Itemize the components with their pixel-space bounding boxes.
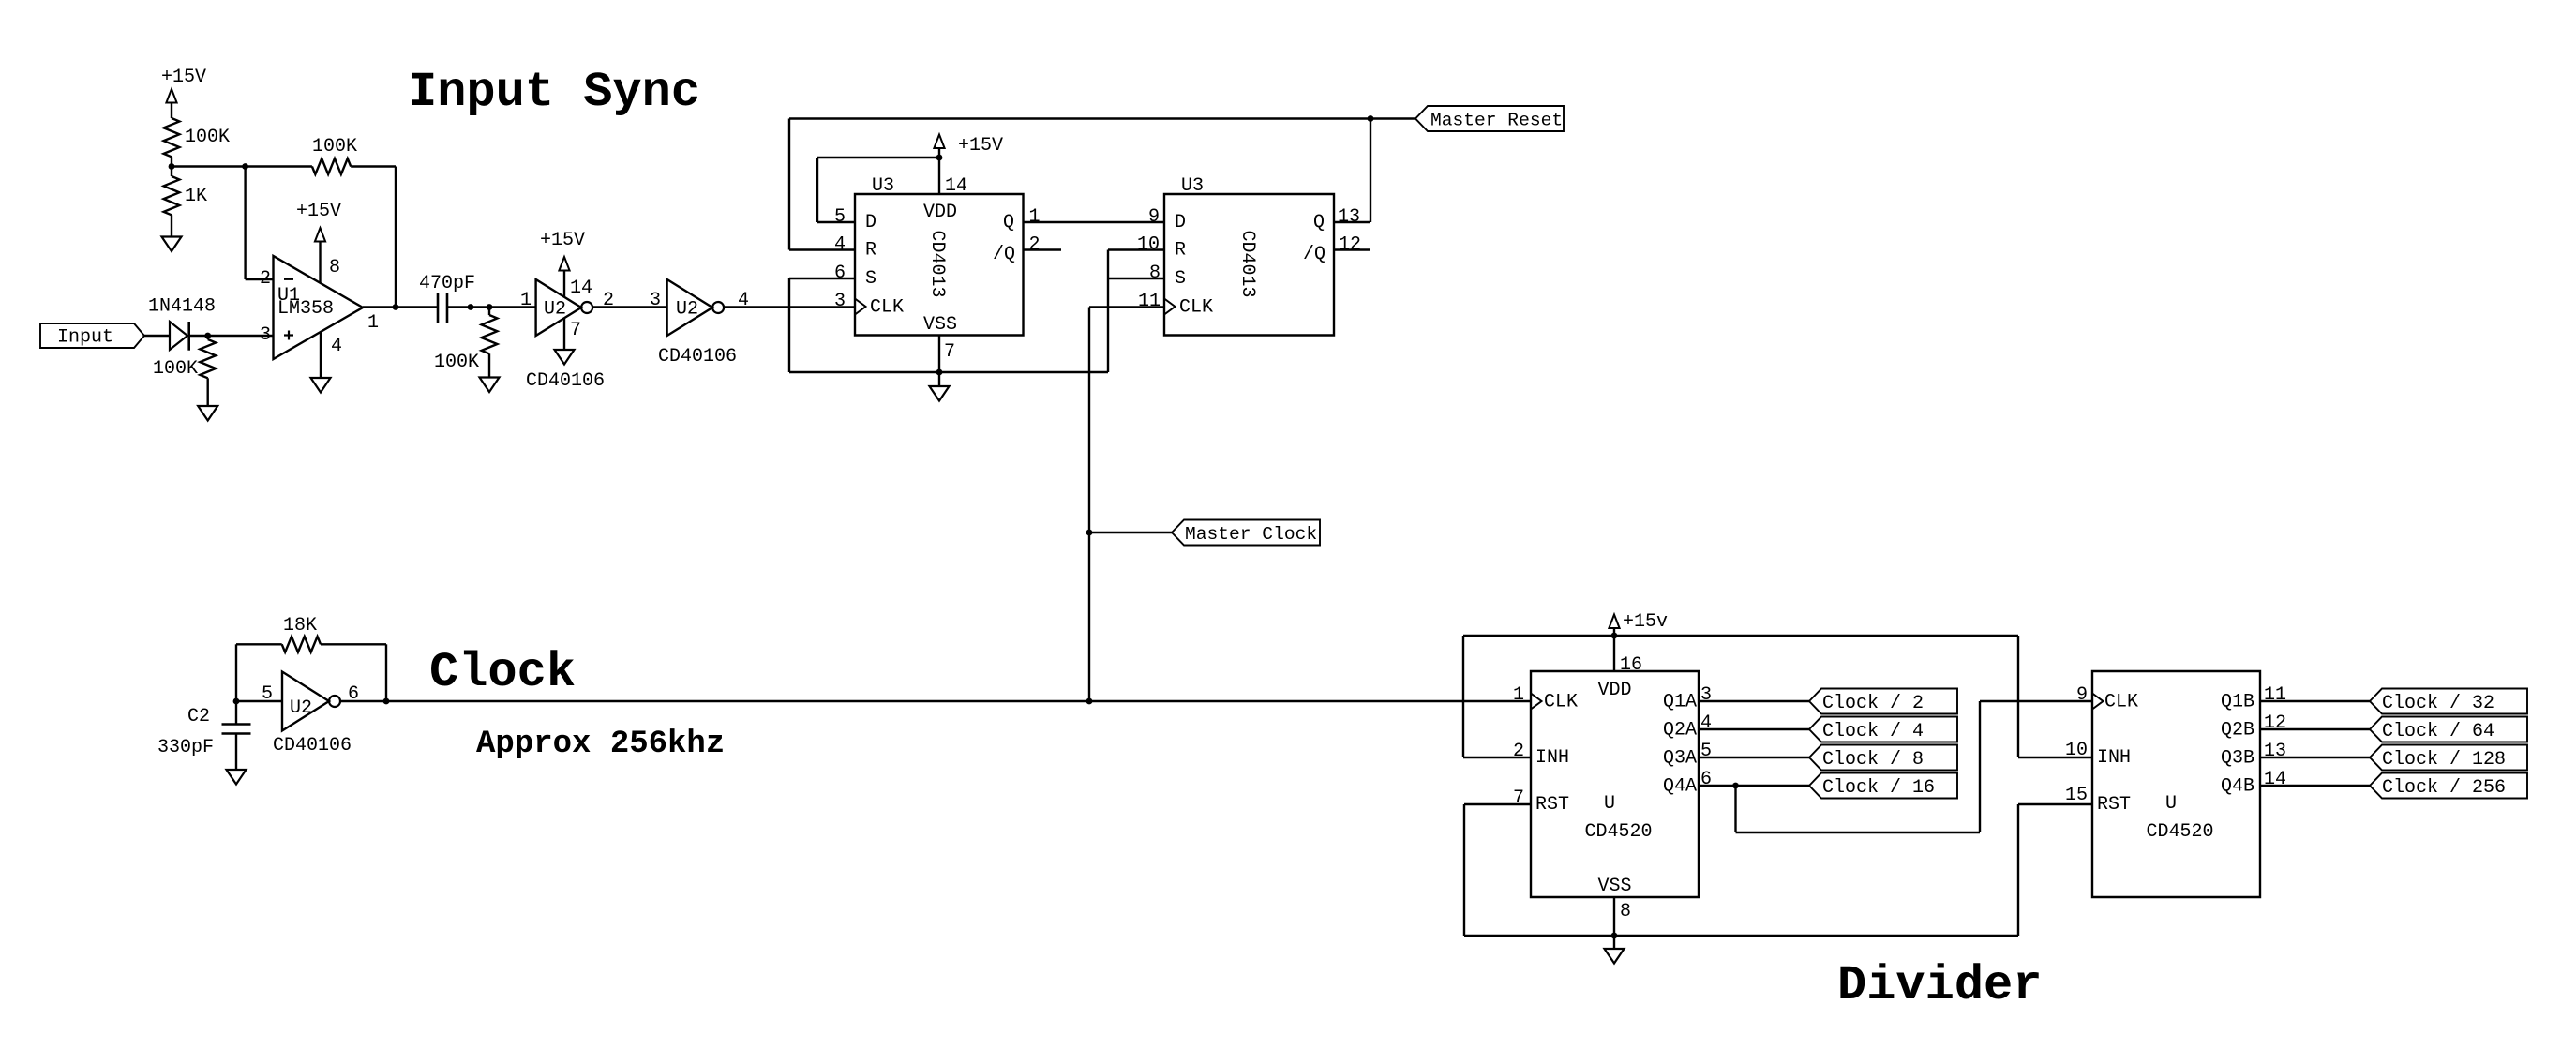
svg-text:12: 12	[2264, 712, 2286, 734]
svg-text:7: 7	[570, 320, 581, 341]
svg-text:13: 13	[2264, 741, 2286, 762]
pin name Q1B	[2221, 692, 2254, 713]
svg-text:Q1B: Q1B	[2221, 692, 2254, 713]
ground (U2a pin 7)	[555, 350, 575, 365]
value CD4013 (a) rotated	[926, 230, 948, 297]
svg-text:8: 8	[1620, 901, 1631, 922]
pin number 3 (U3a)	[834, 291, 846, 312]
node divider ground junction	[1611, 933, 1618, 939]
svg-text:D: D	[1175, 212, 1186, 233]
wire C2 bottom	[235, 734, 237, 771]
svg-text:U3: U3	[872, 175, 894, 197]
wire U3b /Q stub	[1334, 248, 1370, 250]
wire Q2B	[2260, 728, 2370, 730]
svg-text:CD4013: CD4013	[926, 230, 948, 297]
port Clock / 32	[2370, 689, 2527, 715]
ground (C2)	[227, 770, 247, 785]
svg-text:VSS: VSS	[923, 314, 957, 336]
label U3 (a)	[872, 175, 894, 197]
pin number 14 (U3a)	[945, 175, 967, 197]
pin number 6 (U3a)	[834, 262, 846, 284]
pin number 15 (4520b)	[2065, 785, 2088, 806]
wire U3a Q to U3b D	[1024, 221, 1165, 223]
svg-text:Clock / 128: Clock / 128	[2382, 749, 2506, 771]
wire master clock vertical	[1088, 307, 1090, 702]
wire Q1B	[2260, 700, 2370, 702]
wire Q3B	[2260, 757, 2370, 758]
pin number 5 (U2c)	[262, 683, 273, 705]
svg-text:Clock / 64: Clock / 64	[2382, 721, 2494, 742]
pin name /Q (U3a)	[993, 244, 1015, 265]
svg-text:+15V: +15V	[540, 230, 585, 251]
wire U2c out	[340, 700, 386, 702]
pin name Q4A	[1663, 776, 1697, 798]
svg-text:9: 9	[2076, 684, 2088, 706]
label U2 (inverter a)	[544, 299, 566, 321]
svg-text:CD4520: CD4520	[2146, 821, 2213, 843]
svg-text:Q4A: Q4A	[1663, 776, 1697, 798]
port Clock / 4	[1809, 717, 1957, 743]
svg-text:+15v: +15v	[1623, 611, 1668, 633]
svg-text:8: 8	[329, 257, 340, 278]
wire U3a /Q stub	[1024, 248, 1062, 250]
wire U3b S	[1108, 277, 1164, 279]
pin name CLK (U3a)	[870, 297, 904, 319]
node feedback tap	[242, 163, 248, 170]
wire U3b RS down to ground rail	[1107, 250, 1109, 373]
port Clock / 64	[2370, 717, 2527, 743]
node Master Clock junction	[1086, 530, 1093, 536]
pin number 5 (U3a)	[834, 206, 846, 228]
svg-text:+15V: +15V	[296, 201, 341, 222]
pin number 13 (4520b)	[2264, 741, 2286, 762]
wire 4520a RST	[1464, 804, 1531, 936]
wire clock feedback left	[236, 644, 282, 701]
svg-text:4: 4	[1700, 712, 1712, 734]
wire op-amp pin 4	[320, 332, 322, 378]
svg-text:VDD: VDD	[1597, 680, 1631, 701]
node op-amp output junction	[393, 304, 399, 310]
node divider VDD junction	[1611, 633, 1618, 639]
svg-text:15: 15	[2065, 785, 2088, 806]
wire Q4A to 4520b CLK	[1736, 701, 2093, 832]
title Clock	[429, 645, 576, 700]
svg-text:8: 8	[1149, 262, 1161, 284]
svg-text:100K: 100K	[434, 352, 479, 373]
pin number 12 (4520b)	[2264, 712, 2286, 734]
svg-text:3: 3	[1700, 684, 1712, 706]
svg-text:5: 5	[262, 683, 273, 705]
wire U3b Q to Master Reset	[1334, 119, 1370, 223]
pin name RST (4520a)	[1535, 794, 1569, 816]
wire feedback right	[351, 167, 396, 307]
wire VSS to ground	[938, 372, 940, 386]
capacitor C2 330pF	[222, 725, 251, 734]
label U (4520a)	[1604, 793, 1615, 815]
resistor 18K	[282, 615, 321, 652]
svg-text:U3: U3	[1181, 175, 1204, 197]
svg-text:CLK: CLK	[870, 297, 904, 319]
svg-text:Divider: Divider	[1837, 958, 2042, 1013]
pin number 3 (4520a)	[1700, 684, 1712, 706]
wire ground rail (U3)	[789, 371, 1108, 373]
pin name VDD (4520a)	[1597, 680, 1631, 701]
pin number 1 (U3a)	[1029, 206, 1041, 228]
pin name VDD (U3a)	[923, 202, 957, 223]
inverter U2b CD40106	[667, 279, 725, 336]
svg-text:/Q: /Q	[993, 244, 1015, 265]
pin name D (U3b)	[1175, 212, 1186, 233]
svg-text:Clock / 8: Clock / 8	[1822, 749, 1924, 771]
ground (below 1K)	[162, 237, 182, 252]
pin number 3 (U1)	[260, 324, 271, 346]
pin name CLK (4520a)	[1544, 692, 1578, 713]
port Clock / 8	[1809, 745, 1957, 772]
wire divider to feedback	[172, 165, 312, 167]
svg-text:RST: RST	[2097, 794, 2131, 816]
svg-text:Input: Input	[57, 327, 113, 349]
pin number 10 (U3b)	[1137, 234, 1160, 256]
svg-text:16: 16	[1620, 654, 1642, 676]
pin number 11 (U3b)	[1138, 291, 1161, 312]
port Master Clock	[1172, 520, 1320, 546]
wire C2 top	[235, 701, 237, 725]
wire Q4A	[1699, 785, 1809, 787]
svg-text:D: D	[865, 212, 876, 233]
svg-text:5: 5	[834, 206, 846, 228]
svg-text:VDD: VDD	[923, 202, 957, 223]
capacitor 470pF	[419, 273, 475, 323]
pin name Q3A	[1663, 748, 1697, 770]
pin number 1 (U1)	[367, 312, 379, 334]
pin number 9 (4520b)	[2076, 684, 2088, 706]
wire Q2A	[1699, 728, 1809, 730]
wire pulldown to ground	[206, 378, 208, 406]
pin name INH (4520b)	[2097, 747, 2131, 769]
svg-text:11: 11	[2264, 684, 2286, 706]
svg-text:Q4B: Q4B	[2221, 776, 2254, 798]
svg-text:6: 6	[1700, 769, 1712, 790]
resistor 1K	[164, 167, 207, 216]
resistor 100K (top-left divider)	[164, 118, 230, 157]
wire Input to diode	[144, 335, 170, 337]
svg-text:3: 3	[260, 324, 271, 346]
label U2 (inverter b)	[676, 299, 698, 321]
port Clock / 2	[1809, 689, 1957, 715]
pin number 4 (U1)	[331, 336, 342, 357]
pin name INH (4520a)	[1535, 747, 1569, 769]
clock mark (U3b)	[1164, 299, 1176, 315]
svg-text:+15V: +15V	[958, 135, 1003, 157]
svg-text:2: 2	[260, 268, 271, 290]
svg-text:9: 9	[1148, 206, 1160, 228]
svg-text:CD40106: CD40106	[526, 370, 605, 392]
pin name RST (4520b)	[2097, 794, 2131, 816]
node main clock junction	[1086, 698, 1093, 705]
node Q4A junction	[1732, 783, 1739, 789]
svg-text:1: 1	[520, 290, 532, 311]
svg-text:CLK: CLK	[2104, 692, 2138, 713]
svg-text:LM358: LM358	[277, 298, 334, 320]
title Input Sync	[408, 65, 700, 120]
power +15V (op-amp pin 8)	[296, 201, 341, 282]
wire U3a D feedback	[817, 157, 939, 222]
flip-flop U3b CD4013 box	[1164, 194, 1334, 336]
svg-text:7: 7	[1513, 787, 1524, 809]
pin number 6 (U2c)	[348, 683, 359, 705]
label CD40106 (inverter b)	[658, 346, 737, 367]
wire clock feedback right	[321, 644, 386, 701]
svg-text:2: 2	[1029, 234, 1041, 256]
pin name D (U3a)	[865, 212, 876, 233]
svg-text:100K: 100K	[185, 127, 230, 148]
label U (4520b)	[2165, 793, 2177, 815]
wire U3a S to ground rail	[789, 278, 855, 372]
resistor 100K (input pulldown)	[153, 336, 216, 380]
svg-text:CLK: CLK	[1544, 692, 1578, 713]
wire cap to inverter	[447, 306, 536, 307]
pin number 8 (U3b)	[1149, 262, 1161, 284]
wire main clock line	[386, 700, 1531, 702]
svg-text:Q2B: Q2B	[2221, 720, 2254, 742]
svg-text:Q3A: Q3A	[1663, 748, 1697, 770]
svg-text:INH: INH	[2097, 747, 2131, 769]
svg-text:R: R	[865, 240, 876, 262]
wire 4520a VSS stub	[1613, 897, 1615, 936]
ground (divider)	[1605, 949, 1625, 964]
svg-text:Q: Q	[1313, 212, 1325, 233]
pin name S (U3a)	[865, 268, 876, 290]
wire U2b out to U3a CLK	[724, 306, 855, 307]
node pulldown 100K tap	[487, 304, 493, 310]
pin name CLK (4520b)	[2104, 692, 2138, 713]
flip-flop U3a CD4013 box	[855, 194, 1024, 336]
wire 4520a INH	[1463, 636, 1531, 757]
node U3a VDD junction	[936, 155, 943, 161]
label CD40106 (inverter a)	[526, 370, 605, 392]
wire VSS to ground (divider)	[1613, 936, 1615, 949]
wire U3b R	[1108, 248, 1164, 250]
pin number 3 (U2b)	[650, 290, 661, 311]
label U2 (inverter c)	[290, 697, 312, 719]
pin number 2 (U1)	[260, 268, 271, 290]
svg-text:U2: U2	[676, 299, 698, 321]
pin number 2 (U3a)	[1029, 234, 1041, 256]
clock mark (U3a)	[855, 299, 866, 315]
svg-text:Clock / 16: Clock / 16	[1822, 777, 1935, 799]
wire U3b CLK	[1089, 306, 1164, 307]
label C2	[187, 706, 210, 727]
svg-text:U2: U2	[544, 299, 566, 321]
wire 4520a pin16 stub	[1613, 636, 1615, 671]
pin name S (U3b)	[1175, 268, 1186, 290]
svg-text:Approx 256khz: Approx 256khz	[476, 727, 725, 762]
label 330pF	[157, 737, 214, 758]
resistor 100K (after cap)	[434, 307, 497, 374]
wire op-amp output	[363, 306, 438, 307]
svg-text:Q: Q	[1003, 212, 1014, 233]
ground (U3 VSS)	[930, 386, 950, 401]
svg-text:1: 1	[367, 312, 379, 334]
pin name VSS (4520a)	[1597, 876, 1631, 897]
pin number 13 (U3b)	[1338, 206, 1360, 228]
pin number 14 (4520b)	[2264, 769, 2286, 790]
svg-text:Clock / 256: Clock / 256	[2382, 777, 2506, 799]
pin name R (U3a)	[865, 240, 876, 262]
svg-text:CLK: CLK	[1179, 297, 1213, 319]
pin number 4 (U2b)	[738, 290, 749, 311]
svg-text:U: U	[2165, 793, 2177, 815]
svg-text:RST: RST	[1535, 794, 1569, 816]
wire diode to op-amp pin 3	[189, 335, 274, 337]
pin number 6 (4520a)	[1700, 769, 1712, 790]
node Master Reset junction	[1368, 115, 1374, 122]
wire U3a R to Master Reset	[789, 119, 855, 250]
pin number 2 (4520a)	[1513, 741, 1524, 762]
counter U4b CD4520 box	[2092, 671, 2260, 897]
pin number 12 (U3b)	[1339, 234, 1361, 256]
svg-text:14: 14	[2264, 769, 2286, 790]
label CD40106 (inverter c)	[273, 735, 352, 757]
wire ground rail (divider)	[1464, 935, 2018, 937]
pin number 1 (4520a)	[1513, 684, 1524, 706]
pin number 10 (4520b)	[2065, 740, 2088, 761]
pin name Q2B	[2221, 720, 2254, 742]
inverter U2a CD40106	[536, 279, 593, 336]
svg-text:10: 10	[1137, 234, 1160, 256]
pin number 7 (U3a)	[944, 341, 955, 363]
pin name Q4B	[2221, 776, 2254, 798]
svg-text:Q2A: Q2A	[1663, 720, 1697, 742]
pin number 7 (4520a)	[1513, 787, 1524, 809]
svg-text:1: 1	[1513, 684, 1524, 706]
svg-text:6: 6	[834, 262, 846, 284]
pin number 2 (U2a)	[603, 290, 614, 311]
wire U2a pin 7	[563, 318, 565, 350]
svg-text:470pF: 470pF	[419, 273, 475, 294]
wire 1K to ground	[171, 215, 172, 236]
svg-text:Q3B: Q3B	[2221, 748, 2254, 770]
svg-text:CD4013: CD4013	[1236, 230, 1258, 297]
power +15V (U3a pin 14)	[934, 135, 1003, 158]
wire Q1A	[1699, 700, 1809, 702]
pin name /Q (U3b)	[1303, 244, 1325, 265]
wire U3a VSS stub	[938, 336, 940, 373]
pin number 16 (4520a)	[1620, 654, 1642, 676]
wire U3a pin 14 stub	[938, 157, 940, 194]
op-amp U1 LM358 body	[274, 256, 364, 359]
wire to op-amp pin 2	[246, 167, 274, 280]
port Master Reset	[1415, 106, 1564, 131]
power +15V (U2a pin 14)	[540, 230, 585, 297]
svg-text:4: 4	[834, 234, 846, 256]
power +15V supply	[161, 67, 206, 118]
pin name Q (U3a)	[1003, 212, 1014, 233]
svg-text:Master Clock: Master Clock	[1185, 524, 1317, 545]
pin name VSS (U3a)	[923, 314, 957, 336]
value CD4520 (a)	[1584, 821, 1652, 843]
svg-text:3: 3	[650, 290, 661, 311]
wire +15V rail (divider)	[1463, 635, 2018, 637]
svg-text:CD4520: CD4520	[1584, 821, 1652, 843]
pin name Q2A	[1663, 720, 1697, 742]
inverter U2c CD40106 (oscillator)	[282, 672, 340, 731]
svg-text:330pF: 330pF	[157, 737, 214, 758]
svg-text:1N4148: 1N4148	[148, 296, 216, 318]
svg-text:CD40106: CD40106	[658, 346, 737, 367]
port Clock / 256	[2370, 773, 2527, 800]
title Divider	[1837, 958, 2042, 1013]
svg-text:Clock / 2: Clock / 2	[1822, 693, 1924, 714]
svg-text:14: 14	[570, 277, 592, 299]
clock mark (4520b)	[2092, 694, 2104, 710]
svg-text:Clock / 32: Clock / 32	[2382, 693, 2494, 714]
ground (input pulldown)	[198, 406, 217, 421]
label U3 (b)	[1181, 175, 1204, 197]
svg-text:4: 4	[331, 336, 342, 357]
wire 4520b INH	[2018, 636, 2092, 757]
pin name Q3B	[2221, 748, 2254, 770]
svg-text:7: 7	[944, 341, 955, 363]
pin number 8 (U1)	[329, 257, 340, 278]
pin number 4 (U3a)	[834, 234, 846, 256]
wire into U2c	[236, 700, 282, 702]
clock mark (4520a)	[1531, 694, 1542, 710]
svg-text:14: 14	[945, 175, 967, 197]
wire Q3A	[1699, 757, 1809, 758]
node clock osc input junction	[233, 698, 240, 705]
wire Master Reset rail	[789, 117, 1415, 119]
svg-text:+15V: +15V	[161, 67, 206, 88]
wire Master Clock branch	[1089, 532, 1172, 533]
svg-text:/Q: /Q	[1303, 244, 1325, 265]
ground (op-amp pin 4)	[311, 378, 331, 393]
svg-text:S: S	[865, 268, 876, 290]
value CD4520 (b)	[2146, 821, 2213, 843]
svg-text:3: 3	[834, 291, 846, 312]
pin number 14 (U2a)	[570, 277, 592, 299]
pin name R (U3b)	[1175, 240, 1186, 262]
pin name CLK (U3b)	[1179, 297, 1213, 319]
diode 1N4148	[148, 296, 216, 351]
ground (after-cap pulldown)	[480, 378, 500, 393]
node input pulldown junction	[204, 333, 211, 339]
svg-text:12: 12	[1339, 234, 1361, 256]
svg-text:VSS: VSS	[1597, 876, 1631, 897]
svg-text:1: 1	[1029, 206, 1041, 228]
pin number 1 (U2a)	[520, 290, 532, 311]
counter U4a CD4520 box	[1531, 671, 1699, 897]
pin name Q (U3b)	[1313, 212, 1325, 233]
wire 4520b RST	[2018, 804, 2092, 936]
svg-text:INH: INH	[1535, 747, 1569, 769]
svg-text:CD40106: CD40106	[273, 735, 352, 757]
svg-text:2: 2	[1513, 741, 1524, 762]
svg-text:U: U	[1604, 793, 1615, 815]
pin number 4 (4520a)	[1700, 712, 1712, 734]
title Approx 256khz	[476, 727, 725, 762]
svg-text:1K: 1K	[185, 186, 207, 207]
wire U2a out to U2b in	[592, 306, 667, 307]
value CD4013 (b) rotated	[1236, 230, 1258, 297]
port Input	[40, 323, 144, 349]
svg-text:Clock: Clock	[429, 645, 576, 700]
svg-text:Clock / 4: Clock / 4	[1822, 721, 1924, 742]
power +15v (divider)	[1609, 611, 1668, 636]
svg-text:11: 11	[1138, 291, 1161, 312]
pin number 9 (U3b)	[1148, 206, 1160, 228]
pin number 11 (4520b)	[2264, 684, 2286, 706]
